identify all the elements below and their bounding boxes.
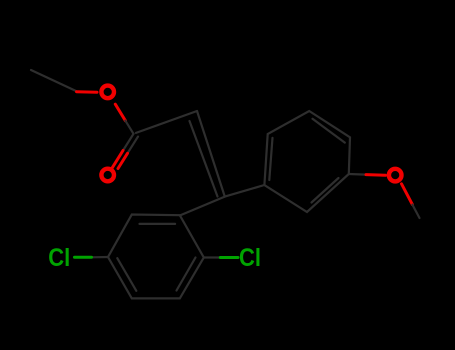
ester O1 <box>101 86 114 99</box>
methoxy ring gray half-bond <box>349 173 366 176</box>
Cl right gray half-bond <box>204 256 221 258</box>
ring1 inner aromatic right-lower <box>177 258 196 291</box>
C=C main line <box>197 111 225 197</box>
methoxy O3 <box>389 169 402 182</box>
methoxy ring red half-bond <box>366 173 386 177</box>
C=O line B red half <box>118 153 128 168</box>
C=O line A gray half <box>123 134 134 151</box>
Cl left gray half-bond <box>92 256 109 258</box>
ring2 inner aromatic top-right <box>313 119 345 143</box>
bond carbonyl C - vinyl CH <box>136 111 197 133</box>
svg-text:Cl: Cl <box>48 244 70 272</box>
C=C inner line <box>190 121 218 197</box>
methoxy methyl red half-bond <box>402 184 413 205</box>
ring2 inner aromatic left <box>269 138 272 180</box>
ring2 inner aromatic bottom-right <box>312 178 339 203</box>
carbonyl O2 <box>101 169 114 182</box>
bond central C - ring1 <box>180 197 225 216</box>
C=O line A red half <box>112 151 123 168</box>
bond central C - ring2 <box>225 185 265 197</box>
ring2 methoxyphenyl hexagon <box>264 111 350 212</box>
ring1 dichlorophenyl hexagon <box>108 215 204 299</box>
methoxy methyl gray half-bond <box>412 205 419 218</box>
bond O1-carbonyl red half <box>115 104 125 121</box>
C=O line B gray half <box>128 137 139 154</box>
Cl left green half-bond <box>75 256 92 259</box>
ring1 inner aromatic top <box>140 223 176 225</box>
ring1 inner aromatic left-lower <box>117 258 136 291</box>
Cl right green half-bond <box>220 256 238 259</box>
bond O1-carbonyl gray half <box>125 121 133 134</box>
ethyl CH3 stub <box>31 70 76 91</box>
svg-text:Cl: Cl <box>239 244 261 272</box>
bond CH2-O1 red <box>77 90 98 94</box>
